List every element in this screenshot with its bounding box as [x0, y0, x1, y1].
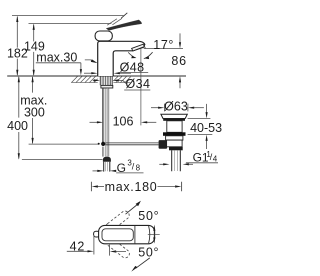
dimension Ø63 [151, 107, 159, 109]
dashed lever position down [105, 236, 131, 259]
svg-text:Ø34: Ø34 [126, 77, 151, 91]
angle arc arrow right of aerator axis [144, 52, 153, 58]
aerator axis extension line down to 106 dimension [140, 49, 142, 126]
dimension 40-53 reference lines [188, 119, 213, 135]
deck hatching left of faucet [71, 76, 98, 82]
dashed lever position up [104, 209, 130, 232]
svg-text:Ø63: Ø63 [164, 99, 188, 113]
G1 1/4 arrows [159, 163, 164, 165]
dimension Ø48: right arrow [120, 72, 131, 74]
svg-text:17°: 17° [153, 38, 174, 52]
dimension Ø48: left arrow [84, 72, 92, 74]
supply hose crimp dome [103, 157, 111, 162]
svg-text:max.180: max.180 [105, 180, 158, 194]
raised lever indication strokes [107, 18, 122, 25]
lower swing arc arrow [136, 258, 150, 268]
body edge arc [149, 226, 150, 243]
svg-text:86: 86 [171, 54, 187, 68]
G3/8 arrows [93, 170, 99, 172]
supply pipes below faucet [106, 88, 109, 157]
waste tailpipe G1 1/4 [172, 150, 181, 171]
extension line for 149 (spout height) [29, 23, 112, 25]
label Ø34 with leader to shank [93, 79, 98, 81]
reference line at bottom of 400 (hose end level) [22, 159, 103, 161]
extension line for 182 (lever max height) [12, 15, 124, 17]
waste bottom cap [169, 147, 183, 151]
extension line at lever nub [93, 235, 95, 255]
svg-text:50°: 50° [138, 209, 159, 223]
dimension 106: right arrow [144, 121, 157, 123]
dimension 149 vertical line [33, 25, 35, 76]
42 right arrow and extension line at lever front face [110, 250, 116, 252]
lever/body joint line [134, 226, 136, 244]
dimension max.300 vertical line [32, 77, 34, 143]
waste mid body [166, 136, 183, 140]
break tick at end of 182 extension line [121, 13, 127, 18]
centre line stub at body [148, 233, 160, 235]
lever top face inset [102, 229, 133, 241]
svg-text:4: 4 [213, 155, 218, 164]
pop-up waste flange [161, 114, 187, 118]
mounting deck line [7, 75, 186, 77]
rod clamp block [159, 140, 168, 149]
40-53 top arrow [206, 104, 208, 113]
flange seal band [163, 119, 185, 121]
40-53 bottom arrow [206, 140, 208, 149]
svg-text:max.30: max.30 [36, 50, 77, 64]
dimension 86 (spout outlet height): top arrow [179, 33, 181, 43]
waste rubber seal (black band) [163, 132, 186, 136]
dimension 400 vertical line [18, 77, 20, 159]
waste lower body [167, 140, 183, 147]
svg-text:106: 106 [113, 115, 134, 129]
svg-text:400: 400 [7, 119, 28, 133]
supply hose G3/8 nipple [104, 162, 110, 172]
reference line at bottom of max.300 (pop-up rod level) [29, 143, 98, 145]
rod end cap dot [98, 143, 100, 145]
angle arc arrow left of aerator axis [128, 52, 135, 57]
svg-text:8: 8 [136, 163, 141, 172]
horizontal pop-up linkage rod [105, 143, 158, 145]
svg-text:50°: 50° [138, 245, 159, 259]
17 deg label underline / reference line [144, 47, 183, 49]
dimension 182 vertical line [16, 17, 18, 75]
lever nub (plan) [94, 231, 100, 237]
pull rod below faucet [102, 88, 103, 142]
deck hatching right of faucet [113, 76, 130, 82]
faucet body and spout outline [98, 41, 145, 76]
ball joint of pop-up rod [101, 142, 105, 146]
svg-text:40-53: 40-53 [190, 121, 222, 135]
upper swing arc arrow [126, 205, 138, 215]
threaded shank through deck [100, 76, 112, 85]
dimension max.180 [91, 182, 181, 191]
faucet top outline (plan): lever + body [99, 225, 155, 243]
aerator (17 deg tilted mousseur) [132, 44, 145, 51]
waste neck [167, 121, 182, 133]
dimension 106: left arrow [90, 121, 98, 123]
dimension 86 bottom arrow [179, 81, 181, 88]
handle base [95, 31, 112, 41]
svg-text:300: 300 [24, 105, 45, 119]
svg-text:/: / [132, 162, 135, 172]
handle lever blade (closed position) [106, 20, 142, 31]
mounting nut below deck [101, 85, 113, 88]
vertical double swing arrow [153, 229, 155, 240]
